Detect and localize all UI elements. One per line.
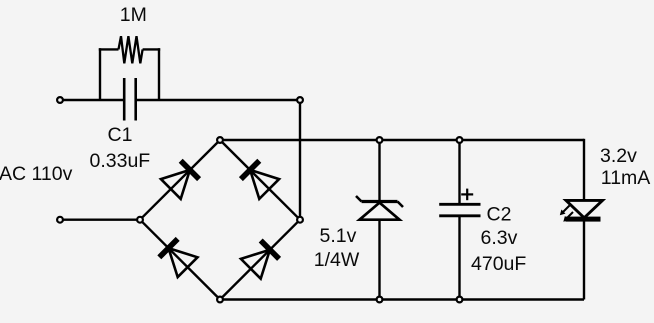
node C2 top junction [457,137,463,143]
svg-text:0.33uF: 0.33uF [90,150,151,172]
wire from C1 to node A [136,99,300,101]
wire parallel-loop top-left horizontal [99,48,119,50]
wire LED top lead [583,139,585,201]
wire node A down to bridge right corner [299,100,301,220]
terminal bottom AC [57,217,63,223]
node bridge top corner [217,137,223,143]
wire bottom AC input from terminal to bridge left corner [62,218,140,220]
capacitor C1 left plate [123,78,126,121]
svg-text:AC 110v: AC 110v [0,163,73,185]
wire bridge arm bottom-left [140,220,220,300]
capacitor C2 top plate [439,203,480,206]
node bridge right corner [297,217,303,223]
wire DC minus rail [220,298,584,300]
node bridge left corner [137,217,143,223]
zener diode ZD1 [356,196,403,220]
LED emission arrow upper [560,206,570,216]
terminal top AC [57,97,63,103]
diode D4 bridge lower-right [241,238,282,279]
wire zener top lead [378,140,380,202]
svg-text:6.3v: 6.3v [481,227,518,249]
svg-text:11mA: 11mA [601,167,651,189]
svg-text:1M: 1M [120,4,147,26]
wire top AC input from terminal to C1 [62,99,124,101]
resistor R1 1M zigzag [119,36,143,63]
wire bridge arm top-right [220,140,300,220]
node bridge bottom corner [217,297,223,303]
node C2 bottom junction [457,297,463,303]
LED D5 [566,200,603,221]
wire C2 top lead [458,140,460,204]
wire bridge arm left-top [140,140,220,220]
svg-text:C1: C1 [108,124,133,146]
wire parallel-loop left vertical [99,48,101,100]
capacitor C2 plus sign [461,189,473,201]
wire zener bottom lead [378,220,380,300]
node zener top junction [377,137,383,143]
wire parallel-loop right vertical [158,48,160,100]
svg-text:3.2v: 3.2v [600,145,637,167]
wire LED bottom lead [583,220,585,300]
LED emission arrow lower [563,212,573,222]
wire C2 bottom lead [458,216,460,300]
svg-text:1/4W: 1/4W [314,249,360,271]
diode D3 bridge lower-left [157,236,198,277]
wire bridge arm right-bottom [220,220,300,300]
svg-text:470uF: 470uF [471,253,526,275]
diode D2 bridge upper-right [238,158,279,199]
capacitor C2 bottom plate [439,214,480,217]
diode D1 bridge upper-left [161,158,202,199]
node A junction [297,97,303,103]
svg-text:5.1v: 5.1v [320,225,357,247]
node zener bottom junction [377,297,383,303]
svg-text:C2: C2 [487,204,512,226]
capacitor C1 right plate [134,78,137,121]
wire DC plus rail [220,139,584,141]
wire parallel-loop top-right horizontal [143,48,161,50]
